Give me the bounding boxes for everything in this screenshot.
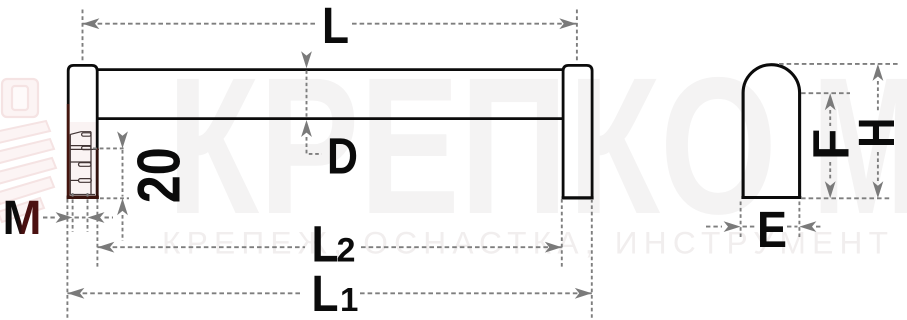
dimension H arrow top [873, 64, 884, 81]
dimension M tail left [43, 217, 56, 219]
dimension L arrow left [82, 18, 99, 29]
dimension L1 arrow right [575, 288, 592, 299]
watermark logo screw head [2, 79, 38, 117]
dimension L2 arrow right [545, 242, 562, 253]
dimension E extension line right [798, 202, 800, 238]
dimension L1 arrow left [67, 288, 84, 299]
dimension L line [82, 23, 317, 25]
dimension D leader tail [307, 137, 322, 154]
dimension L extension line right [576, 10, 578, 63]
svg-text:2: 2 [337, 232, 356, 270]
dimension E middle dash left [743, 226, 757, 228]
right leg bottom edge [562, 196, 594, 199]
dimension 20 arrow top [117, 131, 128, 148]
dimension H arrow bottom [873, 181, 884, 198]
dimension 20 extension line top [93, 147, 125, 149]
side view bottom edge [741, 196, 801, 199]
svg-text:M: M [3, 191, 42, 245]
dimension F extension line top [801, 92, 850, 94]
dimension D arrow top [301, 51, 312, 68]
dimension L1 line [67, 292, 303, 294]
dimension L arrow right [559, 18, 576, 29]
handle bar bottom line [97, 117, 563, 120]
dimension F arrow bottom [825, 181, 836, 198]
dimension M arrow left [56, 212, 73, 223]
svg-text:H: H [848, 118, 905, 148]
svg-text:L: L [322, 0, 349, 54]
dimension L2 line [97, 246, 305, 248]
dimension D arrow bottom [301, 120, 312, 137]
dimension F line upper [829, 110, 831, 126]
right leg outline [563, 65, 592, 198]
left leg outline [68, 65, 97, 198]
dimension E tail left [706, 226, 722, 228]
dimension 20 line middle [122, 150, 124, 197]
dimension M middle dash [75, 217, 86, 219]
dimension E extension line left [740, 202, 742, 238]
dimension 20 extension line bottom [100, 197, 129, 199]
dimension H extension line top [779, 63, 898, 65]
dimension L2 extension line left [96, 199, 98, 267]
dimension L2 arrow left [97, 242, 114, 253]
svg-text:1: 1 [340, 281, 358, 318]
dimension M tail right [105, 217, 114, 219]
watermark logo screw thread stripes [0, 121, 56, 222]
svg-text:L: L [312, 265, 339, 320]
dimension M arrow right [88, 212, 105, 223]
handle bar top line [97, 68, 563, 71]
dimension E tail right [816, 226, 823, 228]
dimension M extension line right [87, 193, 89, 232]
dimension E arrow right [799, 221, 816, 232]
dimension D inner dashed segment [306, 71, 308, 118]
dimension 20 tail bottom [122, 215, 124, 241]
dimension E arrow left [724, 221, 741, 232]
svg-text:20: 20 [126, 147, 193, 203]
thread detail inside left leg [70, 132, 99, 195]
dimension M extension line left [72, 193, 74, 232]
dimension H line lower [877, 152, 879, 181]
dimension L1 extension line left [66, 199, 68, 318]
svg-text:E: E [757, 201, 787, 258]
svg-text:D: D [327, 128, 358, 185]
left leg bottom edge [67, 196, 99, 199]
side view dome body [743, 65, 800, 198]
watermark tint on left leg edges [67, 104, 99, 197]
dimension F arrow top [825, 93, 836, 110]
dimension L extension line left [82, 10, 84, 63]
dimension F line lower [829, 162, 831, 181]
dimension L2 extension line right [561, 199, 563, 267]
dimension L1 extension line right [591, 199, 593, 318]
dimension E middle dash right [787, 226, 798, 228]
dimension F H extension line bottom [801, 197, 890, 199]
watermark tint over left leg thread zone [70, 122, 96, 196]
dimension H line upper [877, 81, 879, 112]
dimension 20 arrow bottom [117, 198, 128, 215]
